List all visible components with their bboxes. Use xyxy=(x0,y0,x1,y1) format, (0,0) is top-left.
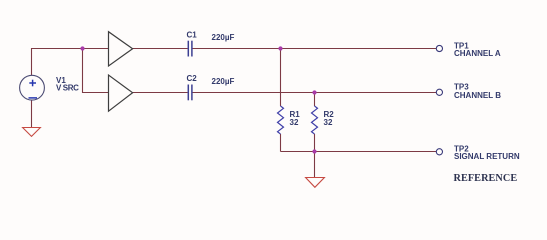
svg-text:CHANNEL B: CHANNEL B xyxy=(454,91,501,100)
svg-text:CHANNEL A: CHANNEL A xyxy=(454,49,501,58)
svg-text:220µF: 220µF xyxy=(212,77,235,86)
svg-text:220µF: 220µF xyxy=(212,33,235,42)
svg-text:SIGNAL RETURN: SIGNAL RETURN xyxy=(454,152,520,161)
svg-text:C2: C2 xyxy=(187,74,198,83)
svg-text:V SRC: V SRC xyxy=(56,84,79,93)
svg-text:REFERENCE: REFERENCE xyxy=(454,173,518,184)
svg-text:32: 32 xyxy=(324,118,333,127)
svg-text:C1: C1 xyxy=(187,30,198,39)
svg-text:32: 32 xyxy=(290,118,299,127)
svg-text:TP3: TP3 xyxy=(454,82,469,91)
